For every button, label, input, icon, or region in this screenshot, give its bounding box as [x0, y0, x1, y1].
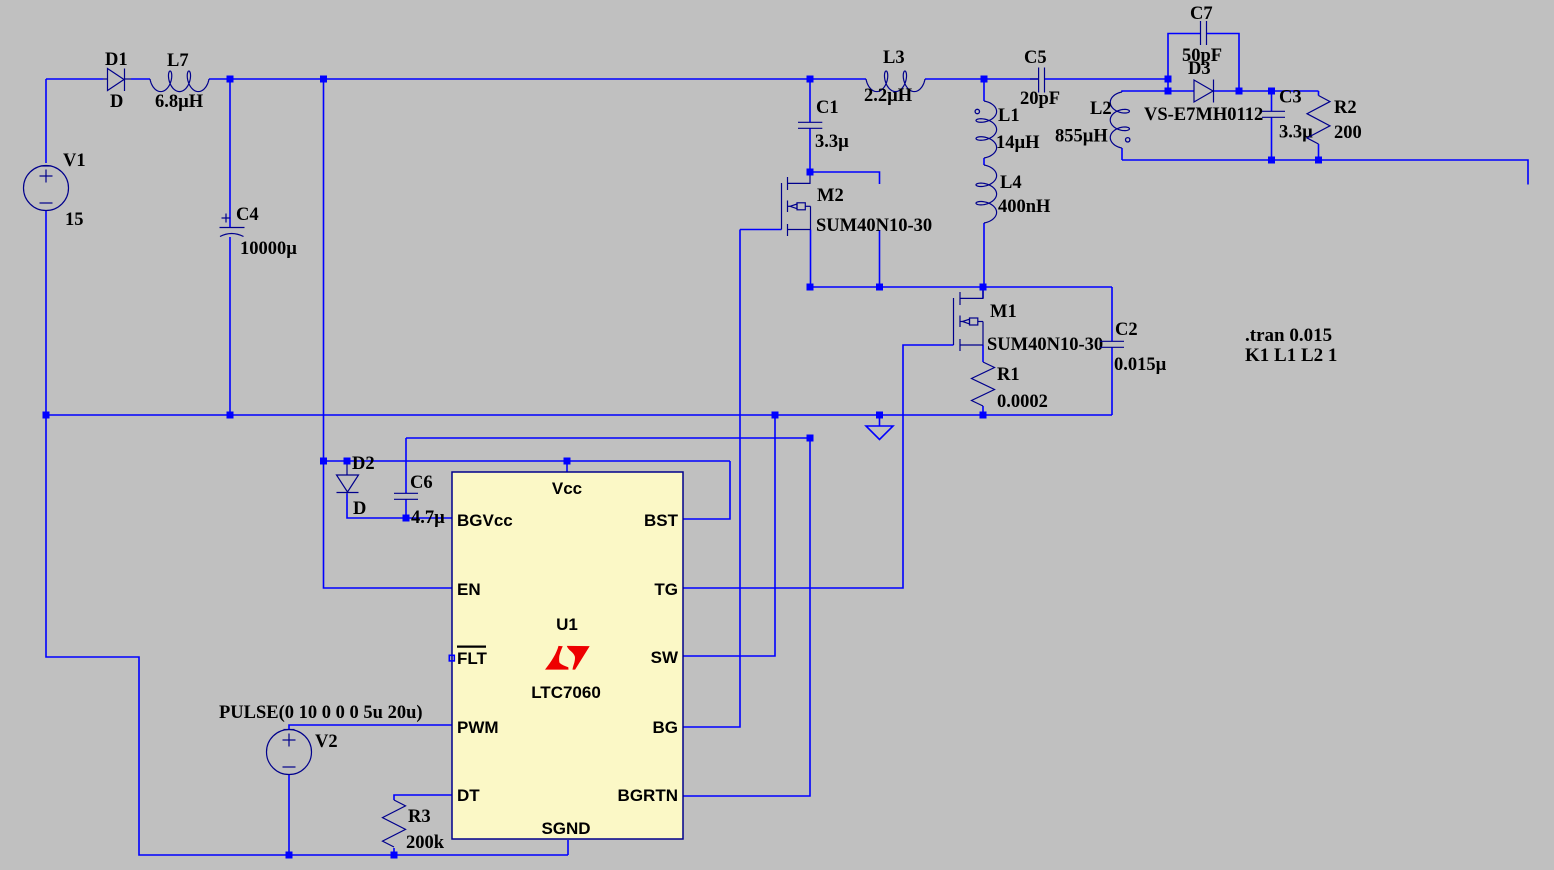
inductor L2 — [1110, 92, 1129, 148]
svg-text:M2: M2 — [817, 186, 844, 206]
svg-text:M1: M1 — [990, 302, 1017, 322]
resistor R2 — [1307, 96, 1330, 145]
wire DT to R3 — [394, 795, 452, 800]
svg-text:PWM: PWM — [457, 718, 499, 737]
phase dot of L1 — [975, 109, 979, 113]
wire D3 cathode to C3 and R2 — [1214, 90, 1319, 92]
voltage source V2 — [267, 730, 312, 775]
wire D3 anode lead — [1168, 90, 1194, 92]
svg-text:SW: SW — [651, 648, 679, 667]
inductor L3 — [866, 71, 925, 92]
svg-text:C4: C4 — [236, 205, 259, 225]
resistor R3 — [383, 800, 406, 847]
wire C3 bottom lead — [1271, 118, 1273, 161]
capacitor C3 — [1262, 111, 1285, 117]
wire C1 top lead — [809, 79, 811, 122]
svg-text:D: D — [353, 499, 366, 519]
wire BGRTN vertical — [683, 438, 810, 796]
capacitor C2 — [1100, 341, 1124, 347]
svg-text:14µH: 14µH — [996, 133, 1040, 153]
svg-text:D3: D3 — [1188, 59, 1211, 79]
svg-text:SUM40N10-30: SUM40N10-30 — [987, 335, 1103, 355]
svg-text:EN: EN — [457, 580, 481, 599]
wire V2 bottom lead — [288, 775, 290, 856]
svg-text:4.7µ: 4.7µ — [411, 508, 445, 528]
svg-text:3.3µ: 3.3µ — [1279, 123, 1313, 143]
svg-text:Vcc: Vcc — [552, 479, 582, 498]
svg-text:TG: TG — [654, 580, 678, 599]
svg-text:D1: D1 — [105, 50, 128, 70]
svg-text:BST: BST — [644, 511, 679, 530]
junction nodes — [43, 76, 1323, 859]
svg-text:L7: L7 — [167, 51, 189, 71]
svg-text:C5: C5 — [1024, 48, 1047, 68]
wire R2 bottom lead — [1318, 144, 1320, 160]
wire stub from M2 drain node — [810, 172, 880, 184]
diode D2 — [337, 461, 359, 494]
wire R1 bottom lead — [982, 406, 984, 415]
svg-text:15: 15 — [65, 210, 84, 230]
capacitor C7 — [1201, 21, 1207, 45]
svg-text:20pF: 20pF — [1020, 89, 1060, 109]
svg-text:10000µ: 10000µ — [240, 239, 297, 259]
svg-text:R3: R3 — [408, 807, 431, 827]
polarized capacitor C4 — [220, 214, 245, 237]
wire D2 anode row to Vcc and BST — [324, 460, 731, 462]
svg-text:BGRTN: BGRTN — [618, 786, 678, 805]
svg-text:VS-E7MH0112: VS-E7MH0112 — [1144, 105, 1263, 125]
voltage source V1 — [24, 166, 69, 211]
wire C1 bottom lead — [809, 128, 811, 172]
wire L1 top lead — [983, 79, 985, 101]
wire M1 drain lead — [982, 287, 984, 298]
svg-text:6.8µH: 6.8µH — [155, 92, 204, 112]
LT logo — [545, 646, 590, 670]
svg-text:L3: L3 — [883, 48, 905, 68]
wire R1 top lead — [982, 345, 984, 362]
wire C7 top left — [1168, 34, 1200, 92]
svg-text:C7: C7 — [1190, 4, 1213, 24]
svg-text:C2: C2 — [1115, 320, 1138, 340]
wire SGND stub — [567, 840, 569, 855]
svg-text:PULSE(0 10 0 0 0 5u 20u): PULSE(0 10 0 0 0 5u 20u) — [219, 703, 423, 723]
svg-text:L1: L1 — [998, 106, 1020, 126]
svg-text:L4: L4 — [1000, 173, 1022, 193]
wire C7 top right — [1207, 34, 1239, 92]
capacitor C5 — [1030, 68, 1045, 93]
svg-text:LTC7060: LTC7060 — [531, 683, 601, 702]
wire top input bus — [46, 78, 103, 80]
wire M2 source to switch bus — [810, 230, 812, 288]
wire L2 top lead — [1122, 91, 1168, 92]
svg-text:SUM40N10-30: SUM40N10-30 — [816, 216, 932, 236]
svg-text:V1: V1 — [63, 151, 86, 171]
wire C3 top lead — [1271, 91, 1273, 111]
svg-text:R2: R2 — [1334, 98, 1357, 118]
svg-text:L2: L2 — [1090, 99, 1112, 119]
svg-text:3.3µ: 3.3µ — [815, 132, 849, 152]
svg-text:C1: C1 — [816, 98, 839, 118]
svg-text:FLT: FLT — [457, 649, 488, 668]
wire R2 top lead — [1318, 91, 1320, 96]
inductor L1 — [976, 101, 997, 158]
resistor R1 — [972, 362, 995, 406]
nmos transistor M2 — [782, 172, 811, 236]
svg-text:SGND: SGND — [541, 819, 590, 838]
wire PWM to V2 — [289, 725, 452, 730]
svg-text:0.0002: 0.0002 — [997, 392, 1048, 412]
wire L4 bottom lead — [983, 223, 985, 287]
svg-text:BG: BG — [653, 718, 679, 737]
svg-text:C6: C6 — [410, 473, 433, 493]
wire V1 bottom lead — [45, 211, 47, 415]
capacitor C6 — [394, 493, 418, 499]
svg-text:.tran 0.015: .tran 0.015 — [1245, 325, 1332, 346]
svg-text:D: D — [110, 92, 123, 112]
svg-text:BGVcc: BGVcc — [457, 511, 513, 530]
wire L2 bottom lead — [1121, 148, 1123, 160]
wire EN / D2 vertical from input bus — [324, 79, 453, 588]
wire output bottom run — [1122, 160, 1528, 185]
wire C4 bottom lead — [229, 237, 231, 415]
inductor L4 — [976, 165, 997, 223]
ground symbol — [866, 418, 893, 440]
wire SW to ground bus — [683, 415, 775, 656]
wire stub to switch node — [879, 230, 881, 287]
wire C2 branch — [1111, 287, 1113, 341]
wire C4 top lead — [229, 79, 231, 227]
wire switch bus — [810, 286, 1112, 288]
wire V1 top lead — [45, 79, 47, 163]
phase dot of L2 — [1126, 138, 1130, 142]
svg-text:855µH: 855µH — [1055, 127, 1108, 147]
wire ground bus — [46, 414, 1112, 416]
wire D2 cathode to BGVcc — [347, 494, 452, 518]
svg-text:200k: 200k — [406, 833, 445, 853]
FLT unconnected pin marker — [449, 655, 454, 661]
svg-text:D2: D2 — [352, 454, 375, 474]
wire L1-L4 link — [983, 158, 985, 165]
inductor L7 — [150, 71, 209, 92]
svg-text:DT: DT — [457, 786, 480, 805]
nmos transistor M1 — [954, 287, 984, 351]
diode D1 — [103, 69, 131, 92]
svg-text:U1: U1 — [556, 615, 578, 634]
wire BGRTN horizontal to C6 — [406, 437, 810, 439]
svg-text:2.2µH: 2.2µH — [864, 86, 913, 106]
wire BG vertical to M2 gate — [683, 230, 740, 728]
svg-text:K1 L1 L2 1: K1 L1 L2 1 — [1245, 345, 1337, 366]
op-amp U1 LTC7060 body — [452, 472, 683, 839]
svg-text:400nH: 400nH — [998, 197, 1051, 217]
wire R3 bottom lead — [393, 848, 395, 855]
svg-text:200: 200 — [1334, 123, 1362, 143]
svg-text:C3: C3 — [1279, 88, 1302, 108]
wire TG to M1 gate — [683, 345, 954, 588]
wire M2 gate lead — [740, 229, 782, 231]
svg-text:0.015µ: 0.015µ — [1114, 355, 1167, 375]
capacitor C1 — [798, 122, 822, 128]
svg-text:R1: R1 — [997, 365, 1020, 385]
wire BST to Vcc — [683, 461, 730, 519]
wire C2 bottom branch — [1111, 348, 1113, 416]
wire left ground run down-left — [46, 415, 568, 855]
wire C6 bottom lead — [405, 499, 407, 518]
diode D3 — [1194, 80, 1214, 103]
wire C6 top lead — [405, 438, 407, 493]
wire Vcc stub — [566, 461, 568, 472]
svg-text:V2: V2 — [315, 732, 338, 752]
